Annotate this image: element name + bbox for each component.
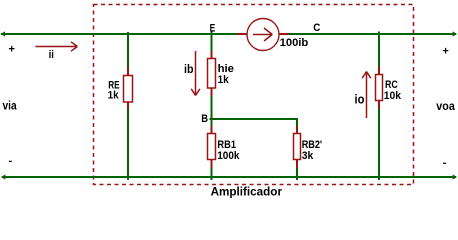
- svg-text:RB1: RB1: [217, 139, 236, 151]
- wire RC to bottom rail: [378, 109, 380, 180]
- svg-text:1k: 1k: [108, 89, 120, 101]
- svg-text:B: B: [201, 113, 208, 125]
- amplifier dashed box: [94, 5, 414, 185]
- bottom rail left arrowhead: [1, 174, 5, 179]
- svg-text:-: -: [9, 155, 13, 167]
- wire top rail right segment: [289, 33, 456, 35]
- svg-text:-: -: [443, 157, 447, 169]
- input arrow ii: [35, 42, 77, 51]
- svg-text:1k: 1k: [218, 74, 230, 86]
- svg-text:ib: ib: [184, 62, 194, 76]
- resistor RE: [124, 66, 133, 110]
- svg-text:voa: voa: [436, 99, 455, 113]
- svg-text:via: via: [3, 100, 18, 112]
- bottom rail right arrowhead: [453, 174, 457, 179]
- resistor RB1: [208, 126, 216, 168]
- wire RC branch upper: [378, 32, 380, 67]
- top rail left arrowhead: [1, 31, 5, 36]
- node E junction wire: [211, 32, 213, 52]
- current source U1 100ib: [237, 19, 289, 51]
- current arrow io: [362, 72, 371, 119]
- wire RB2 to bottom rail: [296, 168, 298, 180]
- svg-text:E: E: [210, 22, 216, 34]
- wire RE branch lower: [127, 110, 129, 180]
- svg-text:+: +: [442, 46, 448, 58]
- svg-text:3k: 3k: [302, 150, 314, 162]
- wire RB1 to bottom rail: [211, 168, 213, 180]
- svg-text:Amplificador: Amplificador: [211, 185, 283, 198]
- wire bottom rail: [2, 176, 456, 178]
- wire node B horizontal: [210, 118, 298, 120]
- current arrow ib: [191, 51, 200, 96]
- svg-text:100ib: 100ib: [280, 37, 309, 49]
- resistor RB2': [294, 126, 301, 168]
- svg-text:C: C: [313, 22, 320, 34]
- svg-text:ii: ii: [49, 49, 54, 61]
- wire top rail left segment: [1, 33, 237, 35]
- svg-text:io: io: [355, 91, 365, 106]
- top rail right arrowhead: [453, 31, 457, 36]
- wire hie to node B: [211, 96, 213, 126]
- svg-text:+: +: [9, 44, 15, 56]
- resistor hie: [208, 51, 216, 96]
- wire RB2 branch upper: [296, 118, 298, 126]
- wire RE branch upper: [127, 32, 129, 68]
- svg-text:100k: 100k: [217, 150, 240, 162]
- resistor RC: [376, 66, 383, 109]
- svg-text:10k: 10k: [384, 90, 402, 102]
